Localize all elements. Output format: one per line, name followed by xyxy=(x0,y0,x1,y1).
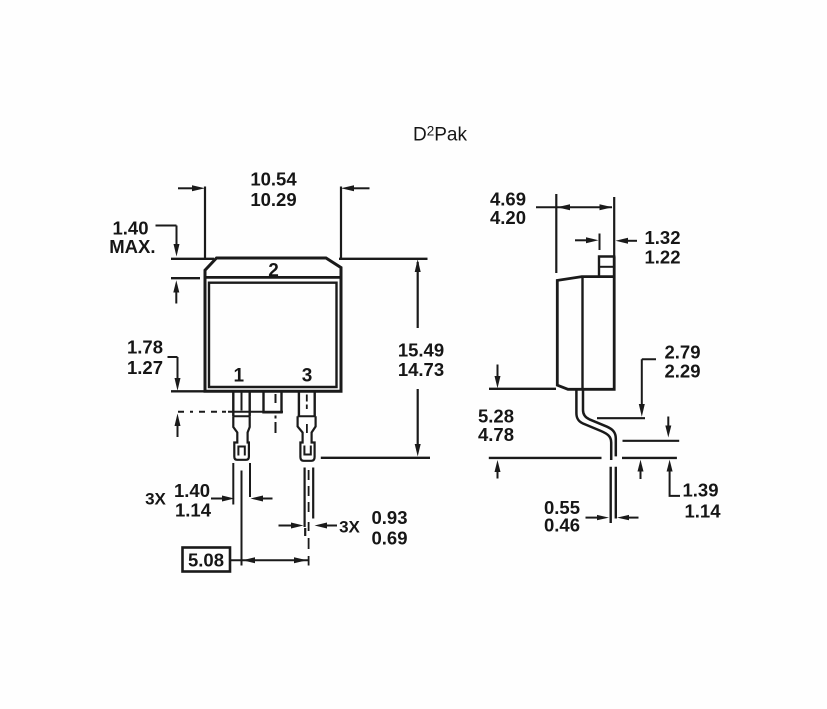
dimension 5.28 arrows xyxy=(495,365,501,479)
svg-text:D2Pak: D2Pak xyxy=(413,124,467,146)
side view tab stub inner line xyxy=(599,266,614,268)
dimension 1.32 arrows xyxy=(575,234,637,251)
dimension 10.54/10.29 text xyxy=(250,169,297,211)
middle lead centerline dashes xyxy=(275,394,277,433)
side body bottom extension line left xyxy=(489,388,556,390)
svg-text:1.40: 1.40 xyxy=(174,480,210,501)
dimension 1.40 MAX leader xyxy=(156,226,180,257)
arrow down to line B xyxy=(665,417,671,438)
pin label 2 xyxy=(268,261,279,282)
dimension 3X 1.40/1.14 text xyxy=(145,480,212,521)
dimension 1.78/1.27 bracket and arrows xyxy=(168,357,181,437)
dimension 15.49/14.73 text xyxy=(398,340,444,381)
svg-text:10.54: 10.54 xyxy=(250,169,297,190)
svg-text:3X: 3X xyxy=(145,490,166,509)
dimension 1.40 MAX lower arrow pointing up xyxy=(173,280,179,303)
dimension 1.32/1.22 text xyxy=(645,227,681,268)
dimension 1.40 MAX text xyxy=(109,218,155,258)
lead 3 thin lead below crimp xyxy=(305,468,314,537)
svg-text:4.20: 4.20 xyxy=(490,207,526,228)
dimension 1.78/1.27 text xyxy=(127,337,163,379)
svg-text:5.08: 5.08 xyxy=(188,550,224,571)
lead 1 crimp dimple xyxy=(238,446,244,456)
svg-text:1.78: 1.78 xyxy=(127,337,163,358)
dimension 4.69/4.20 text xyxy=(490,189,526,229)
dimension 0.55/0.46 text xyxy=(544,497,580,536)
middle lead stub xyxy=(264,391,282,412)
lead 3 centerline dashes xyxy=(307,395,309,566)
svg-text:0.93: 0.93 xyxy=(371,507,407,528)
dimension 4.69 extension line left xyxy=(555,194,557,273)
dimension 1.39/1.14 text xyxy=(683,480,722,522)
svg-text:0.69: 0.69 xyxy=(371,528,407,549)
dimension 1.40/1.14 arrows xyxy=(211,496,273,502)
svg-text:10.29: 10.29 xyxy=(250,189,296,210)
svg-text:2: 2 xyxy=(268,261,279,282)
dimension 5.28/4.78 text xyxy=(478,406,514,446)
svg-text:0.46: 0.46 xyxy=(544,515,580,536)
svg-text:1.14: 1.14 xyxy=(685,501,722,522)
svg-text:14.73: 14.73 xyxy=(398,359,444,380)
arrow up to line C (2.79 partner) xyxy=(638,460,644,479)
svg-text:1.27: 1.27 xyxy=(127,357,163,378)
pin label 1 xyxy=(234,366,245,387)
svg-text:2.29: 2.29 xyxy=(665,361,701,382)
dimension 5.08 line with arrows xyxy=(230,557,308,563)
dimension 2.79/2.29 text xyxy=(665,342,701,382)
svg-text:1.32: 1.32 xyxy=(645,227,681,248)
pin label 3 xyxy=(302,366,313,387)
dimension 1.39/1.14 bracket with arrow xyxy=(667,460,680,496)
front view package outer outline xyxy=(205,258,341,391)
dimension 0.55 arrows xyxy=(586,515,639,520)
side view lead below seating plane xyxy=(611,467,616,523)
svg-text:1: 1 xyxy=(234,366,245,387)
reference line B lead bottom xyxy=(623,440,680,442)
lead 1 outline xyxy=(233,391,249,460)
svg-text:3: 3 xyxy=(302,366,313,387)
side view tab stub xyxy=(599,257,614,277)
side view body inner line xyxy=(581,277,583,390)
front view body inner outline xyxy=(209,283,337,387)
svg-text:2.79: 2.79 xyxy=(665,342,701,363)
lead 1 width extension lines xyxy=(233,463,250,505)
dimension 10.54 extension line right xyxy=(340,187,342,259)
svg-text:1.22: 1.22 xyxy=(645,247,681,268)
reference line A lead top xyxy=(597,417,645,419)
side view body outline xyxy=(557,257,614,390)
dimension 3X 0.93/0.69 text xyxy=(339,507,407,549)
dimension 2.79 leader and arrow xyxy=(639,359,656,417)
side view lead S-bend xyxy=(576,390,615,461)
svg-text:MAX.: MAX. xyxy=(109,236,155,257)
dimension 5.08 boxed text xyxy=(183,548,231,572)
dimension 4.69 line with arrows xyxy=(536,204,613,210)
svg-text:3X: 3X xyxy=(339,518,360,537)
dimension 15.49/14.73 vertical line with arrows xyxy=(415,259,421,456)
lead 3 crimp dimple xyxy=(304,446,310,456)
dimension 10.54 arrow right xyxy=(341,185,370,191)
svg-text:1.14: 1.14 xyxy=(175,500,212,521)
front view tab bottom line xyxy=(205,276,341,279)
svg-text:15.49: 15.49 xyxy=(398,340,444,361)
reference line lead end front xyxy=(321,457,430,459)
seating plane dash-dot line xyxy=(178,411,283,413)
reference line tab bottom left xyxy=(171,277,200,279)
dimension 4.69 extension line right (top of tab edge) xyxy=(613,197,615,257)
dimension 10.54 arrow left xyxy=(178,185,205,191)
reference line C seating plane xyxy=(489,457,677,459)
body bottom extension line left xyxy=(171,390,204,392)
dimension 10.54 extension line left xyxy=(204,187,206,259)
reference line tab top left xyxy=(171,258,214,260)
svg-text:1.39: 1.39 xyxy=(683,480,719,501)
lead 3 outline xyxy=(298,391,316,461)
title D2Pak xyxy=(413,124,467,146)
lead 1 centerline xyxy=(241,392,243,566)
reference line tab top right xyxy=(339,258,428,260)
dimension 0.93/0.69 arrows xyxy=(279,523,338,529)
svg-text:4.78: 4.78 xyxy=(478,424,514,445)
